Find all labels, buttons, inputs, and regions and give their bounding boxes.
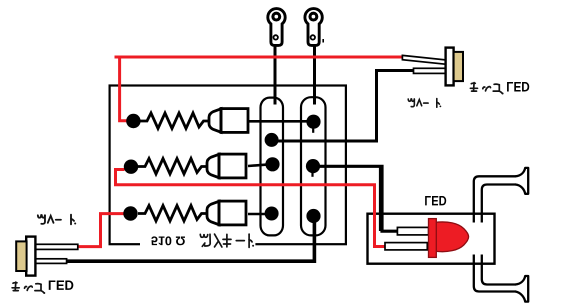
svg-text:LED: LED — [48, 278, 74, 293]
svg-text:510 Ω: 510 Ω — [151, 234, 186, 248]
svg-text:LED: LED — [424, 193, 446, 208]
svg-text:LED: LED — [506, 79, 530, 94]
